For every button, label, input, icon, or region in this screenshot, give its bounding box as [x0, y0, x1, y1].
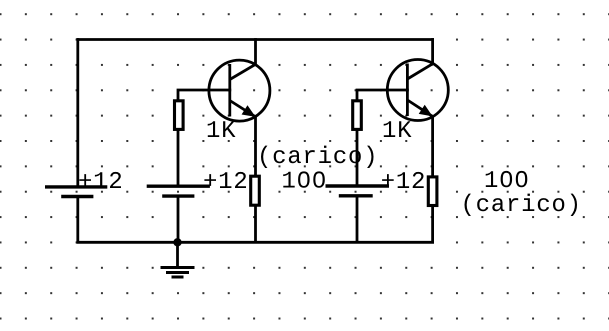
label 100 (R3) — [283, 171, 325, 187]
transistor Q2 — [387, 60, 448, 121]
wire R4 bottom to bottom rail — [431, 205, 434, 242]
wire battery B2 to bottom rail — [177, 196, 180, 242]
wire R2 top corner to Q2 base — [357, 90, 409, 101]
wire R3 bottom to bottom rail — [254, 205, 257, 242]
wire left rail upper (top rail to battery B1) — [76, 38, 79, 187]
resistor R3 100 (carico) — [251, 176, 260, 205]
ground — [161, 242, 195, 277]
resistor R2 1K — [353, 101, 362, 130]
wire R1 bottom to battery B2 — [177, 129, 180, 186]
resistor R4 100 (carico) — [428, 177, 437, 206]
label 1K (R1) — [208, 121, 236, 137]
transistor Q1 — [209, 60, 270, 121]
wire bottom rail — [76, 241, 434, 244]
wire R2 bottom to battery B3 — [356, 129, 359, 186]
battery B2 — [147, 186, 210, 196]
wire Q2 collector drop from top rail — [431, 38, 434, 64]
battery B1 — [45, 187, 107, 197]
wire left rail lower (battery B1 to bottom rail) — [76, 197, 79, 244]
label 1K (R2) — [384, 121, 412, 137]
wire top rail — [76, 38, 434, 41]
label (carico) (R4) — [465, 194, 578, 216]
label +12 (battery B1) — [79, 172, 121, 188]
label +12 (battery B3) — [382, 172, 424, 188]
label (carico) (R3) — [261, 146, 374, 168]
wire battery B3 to bottom rail — [356, 196, 359, 242]
wire R1 top corner to Q1 base — [178, 90, 231, 101]
wire Q1 collector drop from top rail — [254, 38, 257, 64]
label +12 (battery B2) — [204, 172, 246, 188]
wire Q1 emitter to R3 — [254, 116, 257, 176]
battery B3 — [326, 186, 390, 196]
label 100 (R4) — [486, 171, 528, 187]
resistor R1 1K — [175, 101, 184, 130]
node junction dot (ground node) — [173, 238, 181, 246]
wire Q2 emitter to R4 — [431, 116, 434, 178]
